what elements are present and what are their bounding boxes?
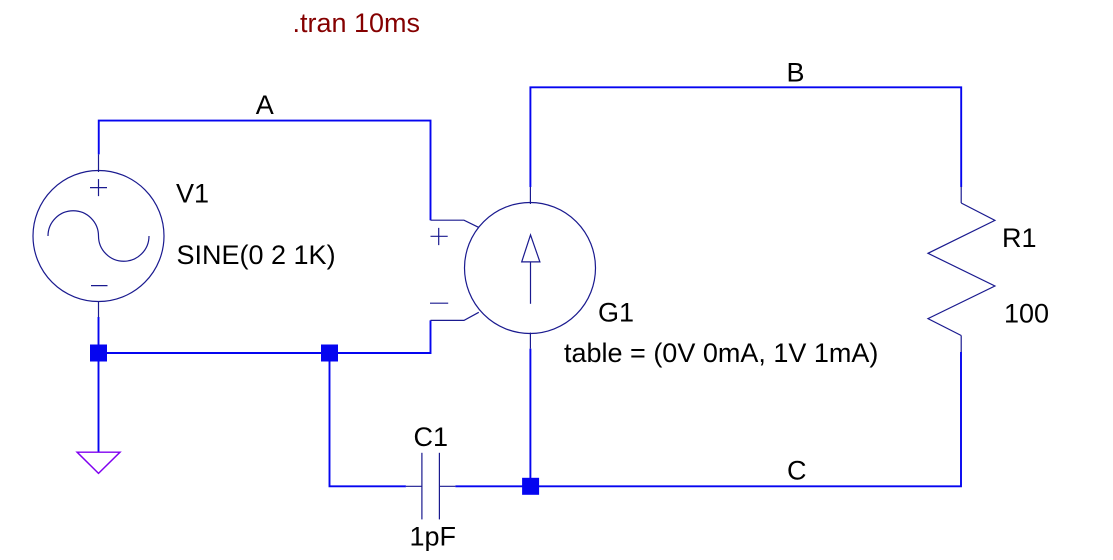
wire node A: V1 top to G1 plus pin [99, 121, 431, 221]
capacitor C1 [406, 453, 456, 520]
resistor R1 [928, 187, 995, 352]
svg-text:C: C [787, 456, 807, 486]
junction J2 [321, 345, 338, 362]
wire J1 down to ground [98, 353, 100, 452]
junction J3 [522, 478, 539, 495]
wire capacitor right lead to junction J3 [455, 485, 530, 487]
wire V1 bottom to junction J1 [98, 317, 100, 353]
svg-text:V1: V1 [176, 179, 209, 209]
wire G1 bottom to junction J3 [529, 349, 531, 487]
ground [77, 452, 120, 473]
svg-text:R1: R1 [1002, 223, 1037, 253]
svg-text:SINE(0 2 1K): SINE(0 2 1K) [177, 240, 336, 270]
wire node B: G1 top to R1 top [530, 87, 961, 187]
svg-text:B: B [787, 58, 805, 88]
svg-text:C1: C1 [414, 422, 449, 452]
behavioral current source G1 [430, 187, 596, 349]
svg-text:G1: G1 [598, 298, 634, 328]
svg-text:100: 100 [1004, 299, 1049, 329]
wire J1 to J2 [99, 352, 330, 354]
junction J1 [90, 345, 107, 362]
svg-text:1pF: 1pF [410, 522, 457, 552]
wire node C: R1 bottom to junction J3 [531, 352, 961, 486]
wire J2 down to capacitor C1 left lead [330, 353, 406, 486]
wire J2 to G1 minus pin [330, 320, 431, 353]
svg-text:A: A [256, 90, 274, 120]
svg-text:table = (0V 0mA, 1V 1mA): table = (0V 0mA, 1V 1mA) [564, 338, 878, 368]
voltage source V1 [33, 154, 164, 318]
svg-text:.tran 10ms: .tran 10ms [293, 8, 421, 38]
